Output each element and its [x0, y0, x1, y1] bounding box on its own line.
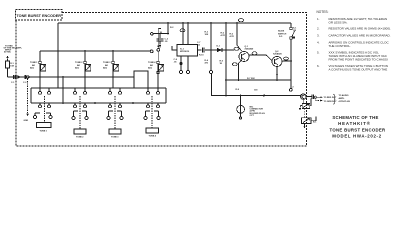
trimmer R tone4 adj — [157, 61, 160, 64]
svg-text:ON: ON — [293, 30, 297, 32]
svg-text:3.: 3. — [317, 33, 320, 37]
svg-text:TO GRN DOT: TO GRN DOT — [324, 101, 338, 103]
svg-text:OR LESS 5%.: OR LESS 5%. — [329, 20, 348, 24]
pushbutton S4 — [151, 96, 153, 129]
svg-text:X29A829: X29A829 — [245, 48, 255, 51]
svg-text:MFC8010: MFC8010 — [180, 51, 190, 53]
capacitor C9 — [289, 88, 292, 91]
junction dots switch bus — [62, 102, 134, 104]
svg-text:NOTES:: NOTES: — [317, 10, 329, 14]
trimmer R tone3 adj — [112, 61, 115, 64]
svg-text:4.7K: 4.7K — [230, 35, 235, 38]
pushbutton S1 — [44, 96, 46, 123]
switch contacts top row — [39, 88, 160, 94]
capacitor C feedthrough left pair 1 — [14, 75, 15, 79]
voltage ellipse 8.4 — [239, 19, 244, 22]
svg-text:A CONTINUOUS TONE OUTPUT AND T: A CONTINUOUS TONE OUTPUT AND THE — [329, 67, 388, 71]
svg-text:4.: 4. — [317, 40, 320, 44]
svg-text:GND: GND — [24, 120, 29, 122]
chassis dashed border — [16, 13, 307, 147]
svg-text:AMPL: AMPL — [339, 97, 346, 100]
resistor R6 drop — [225, 23, 227, 96]
trimmer R tone1 adj — [39, 61, 42, 64]
svg-text:10K: 10K — [205, 34, 209, 36]
svg-text:5.: 5. — [317, 50, 320, 54]
svg-text:TONE 1: TONE 1 — [40, 130, 48, 132]
svg-text:TONE 3: TONE 3 — [103, 62, 111, 64]
svg-text:2 FT: 2 FT — [250, 115, 255, 117]
svg-text:4.7K: 4.7K — [221, 34, 226, 37]
transistor Q2 — [272, 57, 282, 67]
svg-text:X29A829: X29A829 — [273, 53, 283, 56]
svg-text:TONE 2: TONE 2 — [76, 136, 84, 138]
slide switch S5 — [290, 27, 293, 30]
resistor R5 collector — [237, 23, 242, 51]
svg-text:AD: AD — [150, 64, 154, 67]
svg-text:4 PIN PLUG: 4 PIN PLUG — [339, 100, 351, 103]
svg-text:SLIDE: SLIDE — [278, 31, 285, 33]
connector P1 mic — [237, 105, 245, 113]
pushbutton S3 — [114, 96, 116, 129]
svg-text:MODEL HWA-202-2: MODEL HWA-202-2 — [332, 134, 382, 139]
svg-text:2.: 2. — [317, 27, 320, 31]
svg-text:AD: AD — [77, 64, 81, 67]
svg-text:TONE BURST ENCODER: TONE BURST ENCODER — [16, 14, 61, 18]
diode D1 — [217, 48, 222, 52]
IC U1 — [177, 45, 198, 57]
transistor Q3 — [301, 94, 307, 100]
svg-text:AT MIC: AT MIC — [4, 51, 12, 54]
svg-text:SWITCH: SWITCH — [278, 33, 287, 35]
wire bus2 — [40, 50, 150, 52]
svg-text:CAPACITOR VALUES ARE IN MICROF: CAPACITOR VALUES ARE IN MICROFARAD. — [329, 33, 391, 37]
capacitor C7 — [197, 48, 217, 53]
svg-text:TONE BURST ENCODER: TONE BURST ENCODER — [330, 127, 387, 132]
wire x63 — [62, 77, 64, 103]
resistor R2 drop — [153, 23, 168, 34]
resistor R4 470 — [210, 50, 212, 70]
svg-text:AD: AD — [105, 64, 109, 67]
output wire red — [316, 96, 321, 98]
pot R2 level — [304, 108, 306, 117]
voltage ellipse q1 em — [232, 63, 237, 66]
IC U1 pin bottoms — [181, 56, 188, 70]
svg-text:TONE 1: TONE 1 — [30, 62, 38, 64]
svg-text:THE CONTROL.: THE CONTROL. — [329, 44, 352, 48]
voltage ellipse q1 col — [252, 52, 257, 55]
wire y95 main — [212, 74, 301, 96]
svg-text:R-7 22K: R-7 22K — [247, 78, 255, 80]
pushbutton S2 — [79, 96, 81, 129]
voltage ellipse q1 base — [234, 47, 239, 50]
resistor R1 input — [7, 59, 9, 62]
junction dots bus2 — [57, 50, 114, 52]
ground arrow — [27, 79, 29, 114]
junction dots bottom bus — [39, 76, 114, 78]
capacitor C8 — [180, 62, 183, 65]
svg-text:FROM THE POINT INDICATED TO CH: FROM THE POINT INDICATED TO CHASSI — [329, 57, 388, 61]
svg-text:RESISTOR VALUES ARE IN OHMS (K: RESISTOR VALUES ARE IN OHMS (K=1000). — [329, 27, 391, 31]
trimmer R tone2 adj — [84, 61, 87, 64]
connector circle bus2 end — [150, 50, 153, 53]
wire y80 — [226, 80, 291, 88]
tiny component value labels — [4, 27, 351, 138]
svg-text:TONE 4: TONE 4 — [148, 61, 156, 64]
svg-text:TONE 4: TONE 4 — [149, 134, 157, 137]
svg-text:1.: 1. — [317, 17, 320, 21]
svg-text:SCHEMATIC OF THE: SCHEMATIC OF THE — [332, 115, 378, 120]
switch contacts bottom row — [39, 103, 160, 108]
wire top supply bus — [58, 22, 291, 24]
capacitor C feedthrough pair 2 — [24, 75, 25, 79]
switch row top — [31, 87, 166, 89]
voltage ellipse q2 — [284, 57, 289, 60]
wire arrow to tone4 — [158, 29, 161, 46]
resistor R3 drop — [210, 23, 212, 50]
capacitor C2 — [157, 34, 164, 45]
svg-text:6.: 6. — [317, 64, 320, 68]
svg-text:TONE 2: TONE 2 — [75, 62, 83, 64]
brace output — [333, 94, 335, 104]
svg-text:10K: 10K — [10, 65, 14, 67]
output wire grn — [315, 98, 321, 100]
capacitor C10 output — [306, 95, 314, 99]
wire bottom bus — [8, 71, 149, 88]
svg-text:HEATHKIT®: HEATHKIT® — [338, 121, 371, 126]
wire left corner vertical — [57, 23, 59, 88]
transistor Q1 — [239, 52, 249, 62]
title block — [330, 115, 387, 139]
title box dashed — [16, 10, 63, 21]
pot R level — [302, 99, 304, 103]
svg-text:AD: AD — [32, 64, 36, 67]
svg-text:TONE 3: TONE 3 — [111, 136, 119, 138]
svg-text:TO AUDIO: TO AUDIO — [339, 94, 349, 97]
switch row bottom — [31, 102, 166, 104]
voltage ellipse ic — [180, 29, 185, 32]
notes panel — [317, 10, 391, 71]
